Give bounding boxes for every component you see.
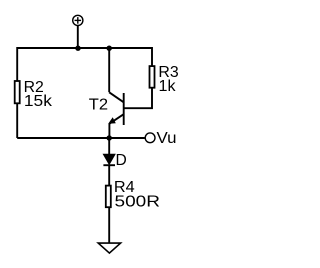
node collector junction xyxy=(107,46,112,51)
resistor R4 xyxy=(106,186,111,208)
svg-text:15k: 15k xyxy=(24,93,52,110)
wire top rail xyxy=(17,48,152,138)
resistor R3 xyxy=(150,66,155,88)
wire R4 to ground xyxy=(108,207,110,243)
wire node to diode xyxy=(108,138,110,155)
wire collector lead xyxy=(108,48,110,92)
wire bottom rail to Vu xyxy=(17,137,145,139)
diode D xyxy=(103,154,115,164)
wire R3 bottom to base xyxy=(125,88,153,109)
terminal Vu xyxy=(145,133,155,143)
svg-text:T2: T2 xyxy=(89,97,108,114)
resistor R2 xyxy=(15,81,20,103)
wire supply drop xyxy=(77,26,79,48)
wire diode to R4 xyxy=(108,165,110,186)
transistor T2 emitter arrow xyxy=(108,117,116,124)
node output junction xyxy=(107,135,112,140)
svg-text:Vu: Vu xyxy=(157,130,177,147)
power supply + terminal xyxy=(73,15,83,25)
svg-text:D: D xyxy=(116,152,127,169)
node supply junction xyxy=(75,46,80,51)
svg-text:1k: 1k xyxy=(159,78,176,95)
ground xyxy=(98,243,120,253)
svg-text:500R: 500R xyxy=(115,194,161,211)
wire emitter to output node xyxy=(108,124,110,139)
transistor T2 xyxy=(109,92,124,125)
